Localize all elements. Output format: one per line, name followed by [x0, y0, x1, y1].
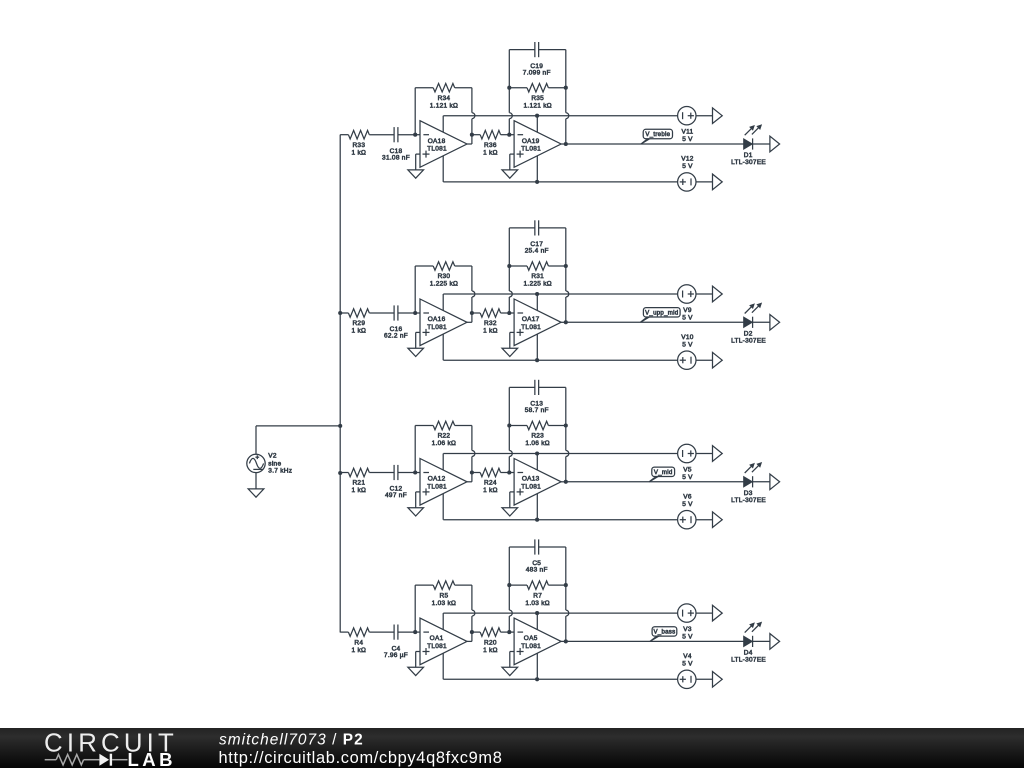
resistor R36 [472, 130, 509, 139]
node OA13 inverting input [507, 470, 514, 474]
node OA19 output [561, 142, 568, 146]
OA17 V- power pin [536, 334, 538, 360]
capacitor C12 [394, 465, 415, 480]
svg-text:V12: V12 [681, 156, 694, 163]
capacitor C16 [394, 305, 415, 320]
label D2 LTL-307EE [731, 330, 766, 344]
op-amp OA18 TL081 [420, 121, 467, 168]
wire OA13 output to D3 [566, 481, 744, 483]
resistor R24 [472, 468, 509, 477]
op-amp OA17 TL081 [514, 299, 561, 346]
voltage source V6 [678, 511, 713, 529]
wire V- rail to V6 [443, 518, 677, 522]
wire V+ rail to V5 [443, 451, 677, 455]
svg-text:D1: D1 [744, 152, 753, 159]
svg-text:3.7 kHz: 3.7 kHz [268, 467, 292, 474]
svg-text:1 kΩ: 1 kΩ [483, 149, 498, 156]
ground at V5 [713, 446, 723, 462]
svg-text:1.03 kΩ: 1.03 kΩ [525, 600, 550, 607]
wire V- rail to V4 [443, 677, 677, 681]
svg-text:R31: R31 [531, 273, 544, 280]
resistor R20 [472, 628, 509, 637]
svg-text:1.06 kΩ: 1.06 kΩ [525, 440, 550, 447]
wire V- rail to V10 [443, 358, 677, 362]
svg-text:58.7 nF: 58.7 nF [525, 407, 549, 414]
svg-text:D3: D3 [744, 490, 753, 497]
node flag V_treble [641, 129, 673, 144]
label R24 1 kΩ [483, 480, 498, 495]
wire feedback to OA1 output [467, 585, 475, 641]
op-amp OA1 TL081 [420, 618, 467, 665]
svg-text:5 V: 5 V [682, 341, 693, 348]
label C5 483 nF [526, 560, 548, 574]
resistor R21 [340, 468, 394, 477]
svg-text:V11: V11 [682, 129, 694, 136]
svg-text:sine: sine [268, 461, 281, 468]
svg-text:1.121 kΩ: 1.121 kΩ [430, 102, 458, 109]
wire OA18 non-inverting input [416, 154, 420, 170]
svg-text:TL081: TL081 [521, 146, 541, 153]
label V4 5 V [682, 653, 693, 667]
OA13 V+ power pin [536, 454, 538, 471]
ground at OA18 non-inverting input [408, 170, 424, 178]
capacitor C19 feedback [509, 42, 566, 57]
svg-text:C16: C16 [390, 326, 403, 333]
ground at V11 [713, 108, 723, 124]
svg-text:R4: R4 [354, 639, 363, 646]
svg-text:1 kΩ: 1 kΩ [483, 647, 498, 654]
resistor R34 feedback [415, 83, 472, 134]
wire OA13 non-inverting input [510, 492, 514, 508]
wire R31 right branch [564, 228, 569, 322]
wire R23 left branch [507, 387, 512, 472]
svg-text:7.099 nF: 7.099 nF [523, 69, 551, 76]
svg-text:5 V: 5 V [682, 474, 693, 481]
resistor R5 feedback [415, 581, 472, 632]
node bus band 3 tap [338, 471, 342, 475]
svg-text:OA12: OA12 [428, 476, 446, 483]
svg-text:1.03 kΩ: 1.03 kΩ [432, 600, 457, 607]
label OA12 TL081 [427, 476, 447, 491]
wire feedback to OA16 output [467, 266, 475, 322]
OA18 V+ power pin [442, 116, 444, 133]
voltage source V5 [678, 444, 713, 462]
LED D3 LTL-307EE [744, 463, 770, 487]
wire OA12 non-inverting input [416, 492, 420, 508]
OA13 V- power pin [536, 494, 538, 520]
label R31 1.225 kΩ [523, 273, 551, 288]
node flag V_mid [649, 467, 674, 482]
svg-text:R29: R29 [352, 320, 365, 327]
svg-text:R32: R32 [484, 320, 497, 327]
label C17 25.4 nF [525, 241, 549, 255]
node OA18 inverting input [413, 133, 420, 137]
svg-text:V9: V9 [683, 307, 692, 314]
svg-text:R7: R7 [533, 592, 542, 599]
svg-text:C12: C12 [390, 486, 403, 493]
node OA19 inverting input [507, 133, 514, 137]
svg-text:smitchell7073 / P2: smitchell7073 / P2 [219, 732, 364, 749]
svg-text:R33: R33 [352, 142, 365, 149]
label R20 1 kΩ [483, 639, 498, 654]
svg-text:R21: R21 [352, 480, 365, 487]
svg-text:V_bass: V_bass [653, 629, 675, 636]
svg-text:C18: C18 [390, 148, 403, 155]
OA16 V- power pin [442, 334, 444, 360]
svg-text:TL081: TL081 [521, 483, 541, 490]
svg-text:TL081: TL081 [427, 483, 447, 490]
svg-text:1 kΩ: 1 kΩ [352, 328, 367, 335]
resistor R35 feedback [509, 83, 566, 92]
node OA1 inverting input [413, 630, 420, 634]
svg-text:483 nF: 483 nF [526, 567, 548, 574]
label D4 LTL-307EE [731, 649, 766, 663]
OA12 V+ power pin [442, 454, 444, 471]
OA18 V- power pin [442, 156, 444, 182]
svg-text:1 kΩ: 1 kΩ [352, 149, 367, 156]
label R22 1.06 kΩ [432, 433, 457, 448]
svg-text:1 kΩ: 1 kΩ [483, 487, 498, 494]
CircuitLab logo resistor-diode glyph [45, 754, 128, 766]
label R23 1.06 kΩ [525, 433, 550, 448]
wire feedback to OA18 output [467, 88, 475, 144]
ground at V6 [713, 512, 723, 528]
node OA17 output [561, 320, 568, 324]
label V2 sine 3.7 kHz [268, 453, 292, 475]
ground at OA12 non-inverting input [408, 508, 424, 516]
node V2 bus junction [338, 424, 342, 428]
ground at D3 cathode [770, 474, 780, 490]
svg-text:R22: R22 [438, 433, 451, 440]
label C4 7.96 µF [384, 645, 408, 659]
OA1 V+ power pin [442, 613, 444, 630]
wire R7 left branch [507, 547, 512, 632]
resistor R32 [472, 309, 509, 318]
svg-text:V_treble: V_treble [645, 131, 670, 138]
ground at D2 cathode [770, 315, 780, 331]
OA17 V+ power pin [536, 294, 538, 311]
wire R35 right branch [564, 50, 569, 144]
label V10 5 V [681, 334, 694, 348]
wire R23 right branch [564, 387, 569, 481]
node OA16 output [470, 311, 474, 315]
OA5 V+ power pin [536, 613, 538, 630]
node OA17 inverting input [507, 311, 514, 315]
node flag V_bass [650, 627, 677, 642]
svg-text:OA17: OA17 [522, 316, 540, 323]
svg-text:1.121 kΩ: 1.121 kΩ [523, 102, 551, 109]
label R29 1 kΩ [352, 320, 367, 335]
ground at OA17 non-inverting input [502, 348, 518, 356]
label OA1 TL081 [427, 635, 447, 650]
op-amp OA13 TL081 [514, 459, 561, 506]
svg-text:1 kΩ: 1 kΩ [352, 647, 367, 654]
node OA18 output [470, 133, 474, 137]
svg-text:C19: C19 [530, 63, 543, 70]
resistor R31 feedback [509, 262, 566, 271]
voltage source V3 [678, 604, 713, 622]
op-amp OA19 TL081 [514, 121, 561, 168]
svg-text:1.225 kΩ: 1.225 kΩ [430, 281, 458, 288]
svg-text:OA1: OA1 [430, 635, 444, 642]
OA1 V- power pin [442, 653, 444, 679]
label C12 497 nF [385, 486, 407, 500]
label R33 1 kΩ [352, 142, 367, 157]
voltage source V9 [678, 285, 713, 303]
wire OA5 output to D4 [566, 640, 744, 642]
wire input bus [339, 135, 341, 633]
label D3 LTL-307EE [731, 490, 766, 504]
label R30 1.225 kΩ [430, 273, 458, 288]
svg-text:V_mid: V_mid [654, 469, 673, 476]
capacitor C4 [394, 625, 415, 640]
svg-text:V10: V10 [681, 334, 694, 341]
wire R31 left branch [507, 228, 512, 313]
ground at V3 [713, 605, 723, 621]
svg-text:1.225 kΩ: 1.225 kΩ [523, 281, 551, 288]
svg-text:TL081: TL081 [427, 146, 447, 153]
svg-text:R20: R20 [484, 639, 497, 646]
svg-text:5 V: 5 V [682, 633, 693, 640]
label V3 5 V [682, 626, 693, 640]
capacitor C13 feedback [509, 380, 566, 395]
wire OA19 non-inverting input [510, 154, 514, 170]
label R4 1 kΩ [352, 639, 367, 654]
wire R7 right branch [564, 547, 569, 641]
svg-text:OA5: OA5 [524, 635, 538, 642]
resistor R22 feedback [415, 421, 472, 472]
label C13 58.7 nF [525, 401, 549, 415]
svg-text:R23: R23 [531, 433, 544, 440]
resistor R23 feedback [509, 421, 566, 430]
svg-text:C4: C4 [392, 645, 401, 652]
label C19 7.099 nF [523, 63, 551, 77]
label V5 5 V [682, 466, 693, 480]
wire OA1 non-inverting input [416, 652, 420, 668]
capacitor C5 feedback [509, 539, 566, 554]
ground at OA13 non-inverting input [502, 508, 518, 516]
label OA17 TL081 [521, 316, 541, 331]
label OA16 TL081 [427, 316, 447, 331]
op-amp OA12 TL081 [420, 459, 467, 506]
svg-text:R36: R36 [484, 142, 497, 149]
node OA13 output [561, 480, 568, 484]
svg-text:31.08 nF: 31.08 nF [382, 154, 410, 161]
svg-text:C17: C17 [530, 241, 543, 248]
svg-text:R5: R5 [440, 592, 449, 599]
svg-text:TL081: TL081 [427, 643, 447, 650]
ground at V9 [713, 286, 723, 302]
svg-text:R34: R34 [438, 95, 451, 102]
svg-text:V6: V6 [683, 494, 692, 501]
svg-text:1 kΩ: 1 kΩ [483, 328, 498, 335]
ground at V2 [248, 489, 264, 497]
label R7 1.03 kΩ [525, 592, 550, 607]
svg-text:LTL-307EE: LTL-307EE [731, 656, 766, 663]
wire V2 to ground [255, 473, 257, 489]
svg-text:LTL-307EE: LTL-307EE [731, 159, 766, 166]
svg-text:V4: V4 [683, 653, 692, 660]
node OA1 output [470, 630, 474, 634]
label V9 5 V [682, 307, 693, 321]
OA19 V+ power pin [536, 116, 538, 133]
op-amp OA5 TL081 [514, 618, 561, 665]
ground at D4 cathode [770, 634, 780, 650]
label C18 31.08 nF [382, 148, 410, 162]
wire OA17 non-inverting input [510, 332, 514, 348]
ground at D1 cathode [770, 136, 780, 152]
svg-text:V_upp_mid: V_upp_mid [645, 309, 678, 316]
svg-text:D4: D4 [744, 649, 753, 656]
svg-text:62.2 nF: 62.2 nF [384, 333, 408, 340]
label V12 5 V [681, 156, 694, 170]
footer title text [219, 732, 503, 767]
ground at V12 [713, 174, 723, 190]
svg-text:TL081: TL081 [427, 324, 447, 331]
resistor R33 [340, 130, 394, 139]
svg-text:LTL-307EE: LTL-307EE [731, 337, 766, 344]
OA12 V- power pin [442, 494, 444, 520]
svg-text:V5: V5 [683, 466, 692, 473]
ground at OA19 non-inverting input [502, 170, 518, 178]
svg-text:5 V: 5 V [682, 314, 693, 321]
resistor R7 feedback [509, 581, 566, 590]
OA16 V+ power pin [442, 294, 444, 311]
label R32 1 kΩ [483, 320, 498, 335]
svg-text:LTL-307EE: LTL-307EE [731, 497, 766, 504]
LED D1 LTL-307EE [744, 125, 770, 149]
svg-text:D2: D2 [744, 330, 753, 337]
CircuitLab logo text [44, 729, 178, 768]
label R36 1 kΩ [483, 142, 498, 157]
capacitor C18 [394, 127, 415, 142]
wire OA16 non-inverting input [416, 332, 420, 348]
wire V2 to input bus [256, 426, 340, 454]
svg-text:C13: C13 [530, 401, 543, 408]
node OA5 inverting input [507, 630, 514, 634]
voltage source V12 [678, 173, 713, 191]
svg-text:7.96 µF: 7.96 µF [384, 652, 408, 659]
ground at V10 [713, 352, 723, 368]
capacitor C17 feedback [509, 220, 566, 235]
svg-text:V2: V2 [268, 453, 277, 460]
svg-text:5 V: 5 V [682, 136, 693, 143]
label C16 62.2 nF [384, 326, 408, 340]
label V11 5 V [682, 129, 694, 143]
wire OA17 output to D2 [566, 321, 744, 323]
label OA19 TL081 [521, 138, 541, 153]
LED D4 LTL-307EE [744, 623, 770, 647]
label R21 1 kΩ [352, 480, 367, 495]
voltage source V2 sine [247, 454, 265, 472]
svg-text:OA16: OA16 [428, 316, 446, 323]
node OA12 output [470, 470, 474, 474]
svg-text:5 V: 5 V [682, 661, 693, 668]
svg-text:1 kΩ: 1 kΩ [352, 487, 367, 494]
svg-text:R35: R35 [531, 95, 544, 102]
op-amp OA16 TL081 [420, 299, 467, 346]
svg-text:OA18: OA18 [428, 138, 446, 145]
resistor R29 [340, 309, 394, 318]
label R5 1.03 kΩ [432, 592, 457, 607]
label R35 1.121 kΩ [523, 95, 551, 110]
svg-text:TL081: TL081 [521, 643, 541, 650]
wire OA5 non-inverting input [510, 652, 514, 668]
voltage source V10 [678, 351, 713, 369]
voltage source V4 [678, 670, 713, 688]
OA19 V- power pin [536, 156, 538, 182]
wire V+ rail to V9 [443, 292, 677, 296]
svg-text:25.4 nF: 25.4 nF [525, 248, 549, 255]
resistor R4 [340, 628, 394, 637]
voltage source V11 [678, 107, 713, 125]
node flag V_upp_mid [640, 308, 680, 323]
label V6 5 V [682, 494, 693, 508]
OA5 V- power pin [536, 653, 538, 679]
svg-text:C5: C5 [532, 560, 541, 567]
ground at OA1 non-inverting input [408, 667, 424, 675]
svg-text:1.06 kΩ: 1.06 kΩ [432, 440, 457, 447]
node OA5 output [561, 639, 568, 643]
resistor R30 feedback [415, 262, 472, 313]
wire V- rail to V12 [443, 180, 677, 184]
label OA5 TL081 [521, 635, 541, 650]
ground at V4 [713, 672, 723, 688]
svg-text:OA13: OA13 [522, 476, 540, 483]
label D1 LTL-307EE [731, 152, 766, 166]
footer bar [0, 728, 1024, 768]
svg-text:OA19: OA19 [522, 138, 540, 145]
wire V+ rail to V3 [443, 611, 677, 615]
LED D2 LTL-307EE [744, 304, 770, 328]
wire OA19 output to D1 [566, 143, 744, 145]
svg-text:LAB: LAB [128, 749, 177, 768]
ground at OA5 non-inverting input [502, 667, 518, 675]
svg-text:R24: R24 [484, 480, 497, 487]
node OA12 inverting input [413, 470, 420, 474]
label OA18 TL081 [427, 138, 447, 153]
svg-text:V3: V3 [683, 626, 692, 633]
svg-text:TL081: TL081 [521, 324, 541, 331]
svg-text:5 V: 5 V [682, 163, 693, 170]
wire feedback to OA12 output [467, 426, 475, 482]
wire R35 left branch [507, 50, 512, 135]
svg-text:497 nF: 497 nF [385, 492, 407, 499]
svg-text:http://circuitlab.com/cbpy4q8f: http://circuitlab.com/cbpy4q8fxc9m8 [219, 749, 503, 767]
label R34 1.121 kΩ [430, 95, 458, 110]
wire V+ rail to V11 [443, 114, 677, 118]
ground at OA16 non-inverting input [408, 348, 424, 356]
svg-text:5 V: 5 V [682, 501, 693, 508]
node OA16 inverting input [413, 311, 420, 315]
svg-text:R30: R30 [438, 273, 451, 280]
label OA13 TL081 [521, 476, 541, 491]
node bus band 2 tap [338, 311, 342, 315]
